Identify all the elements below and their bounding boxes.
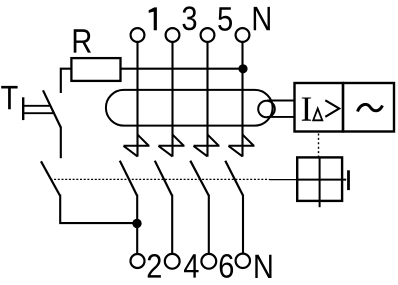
trip coil <box>297 157 346 207</box>
breaker release zigzag pole N <box>229 135 255 157</box>
wire pole 3 lower <box>171 195 173 255</box>
wire pole N lower <box>242 195 244 255</box>
wire resistor to N line <box>121 68 244 70</box>
wire winding to relay lower <box>267 116 295 118</box>
relay box IΔ> <box>295 83 344 132</box>
wire pole N upper <box>241 42 243 157</box>
relay box ~ <box>343 83 394 132</box>
breaker release zigzag pole 1 <box>124 135 150 157</box>
wire pole 1 lower <box>136 195 138 255</box>
wire test switch to junction <box>60 195 137 224</box>
terminal 4 <box>165 254 199 278</box>
test button T <box>1 86 61 128</box>
trip coil actuator bar <box>347 170 350 190</box>
terminal N top <box>236 7 270 42</box>
terminal 1 <box>131 7 157 42</box>
terminal 5 <box>201 7 232 42</box>
wire pole 5 upper <box>206 42 208 157</box>
contact blade pole N <box>225 161 243 196</box>
wire pole 5 lower <box>208 195 210 255</box>
mechanical linkage dashed line <box>50 178 269 180</box>
secondary winding <box>258 101 275 118</box>
wire winding to relay upper <box>267 100 295 102</box>
contact blade pole 1 <box>120 161 137 196</box>
wire resistor left to test button <box>61 69 72 93</box>
breaker release zigzag pole 3 <box>159 135 185 157</box>
terminal 6 <box>201 254 233 278</box>
dotted control line relay to trip coil <box>318 134 320 157</box>
current transformer toroid <box>106 90 273 126</box>
contact blade pole 3 <box>155 161 172 196</box>
wire pole 1 upper <box>136 42 138 157</box>
junction dot on pole 1 lower wire <box>132 219 141 228</box>
wire button to linked switch <box>60 127 62 159</box>
junction dot on N line <box>238 64 247 73</box>
resistor R <box>71 29 120 81</box>
terminal N bottom <box>236 254 272 278</box>
contact blade pole 5 <box>190 161 208 196</box>
breaker release zigzag pole 5 <box>194 135 220 157</box>
terminal 3 <box>166 6 197 42</box>
terminal 2 <box>131 254 161 278</box>
linked test switch blade <box>41 161 60 195</box>
wire pole 3 upper <box>171 42 173 157</box>
linkage solid segment to trip coil <box>270 179 298 181</box>
